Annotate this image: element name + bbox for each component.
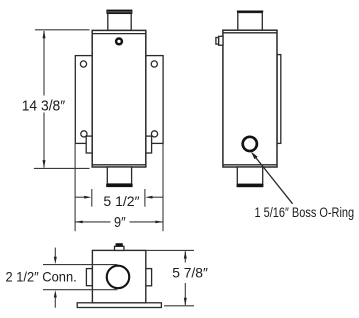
dim 5 7/8 vertical upper segment xyxy=(184,251,186,262)
side filler neck xyxy=(238,13,262,31)
dim 9 left extension line xyxy=(74,144,76,231)
dim 2 1/2 up arrow xyxy=(54,290,57,297)
bolt hole top-right xyxy=(151,61,157,67)
dim 5 7/8 vertical lower segment xyxy=(184,283,186,305)
side plug outer nut xyxy=(219,36,223,45)
dim 2 1/2 top extension line xyxy=(43,264,117,266)
bottom view right tab xyxy=(146,269,152,286)
front filler neck xyxy=(108,13,131,30)
dim 5 7/8 bottom extension line xyxy=(164,305,194,307)
front left bottom bracket tab xyxy=(86,136,92,153)
front right mounting flange xyxy=(146,56,163,144)
svg-text:5 7/8″: 5 7/8″ xyxy=(172,264,208,280)
dim 5 1/2 right extension line xyxy=(144,189,146,207)
dim 5 1/2 left-pointing arrow xyxy=(145,196,152,199)
side filler cap line xyxy=(237,11,263,13)
front vent hole xyxy=(116,39,122,45)
dim 5 1/2 right-pointing arrow xyxy=(84,196,91,199)
dim 14 3/8 up arrow xyxy=(43,30,46,38)
dim 5 1/2 left lead line xyxy=(75,196,87,198)
dim 5 1/2 left extension line xyxy=(91,189,93,207)
side body top inner seam line xyxy=(223,32,277,34)
front body top inner seam line xyxy=(92,33,146,35)
bottom view connection circle xyxy=(107,266,130,289)
bottom view left tab xyxy=(86,269,92,286)
dim 14 3/8 bottom extension line xyxy=(34,167,90,169)
side boss o-ring port circle xyxy=(243,137,257,151)
bolt hole bottom-left xyxy=(81,131,87,137)
svg-text:14 3/8″: 14 3/8″ xyxy=(22,98,66,115)
svg-text:9″: 9″ xyxy=(114,214,126,231)
dim 9 line left segment xyxy=(75,221,110,223)
dim 5 1/2 right lead line xyxy=(150,196,163,198)
svg-text:2 1/2″ Conn.: 2 1/2″ Conn. xyxy=(6,268,77,284)
side drain neck xyxy=(237,167,262,184)
svg-text:1 5/16″ Boss O-Ring: 1 5/16″ Boss O-Ring xyxy=(255,205,355,220)
front tank body xyxy=(92,30,146,167)
side tank body xyxy=(223,30,277,167)
dim 14 3/8 vertical line upper segment xyxy=(43,31,45,96)
front drain neck xyxy=(107,167,131,184)
dim 5 7/8 down arrow xyxy=(184,298,187,306)
dim 2 1/2 lower lead line xyxy=(54,294,56,307)
leader arrowhead xyxy=(251,152,258,160)
dim 2 1/2 down arrow xyxy=(54,257,57,264)
bottom view nub cap xyxy=(116,243,123,246)
dim 2 1/2 upper lead line xyxy=(54,248,56,260)
front right bottom bracket tab xyxy=(146,136,152,153)
bottom view body xyxy=(92,250,145,302)
bolt hole top-left xyxy=(80,61,86,67)
dim 9 line right segment xyxy=(130,221,163,223)
side flange edge tab xyxy=(277,55,281,144)
side drain cap (dark bar) xyxy=(237,184,264,187)
side body bottom inner seam line xyxy=(223,164,277,166)
dim 5 7/8 up arrow xyxy=(184,251,187,259)
bottom view nub base xyxy=(115,246,124,250)
dim 9 right extension line xyxy=(162,144,164,231)
bottom view base plate xyxy=(77,303,161,308)
leader line to boss o-ring xyxy=(255,157,292,204)
front left mounting flange xyxy=(75,56,92,144)
bolt hole bottom-right xyxy=(151,131,157,137)
dim 9 right arrow xyxy=(155,221,162,224)
front filler cap (dark bar) xyxy=(106,10,132,14)
dim 5 7/8 top extension line xyxy=(146,249,194,251)
dim 2 1/2 bottom extension line xyxy=(43,289,117,291)
dim 9 left arrow xyxy=(76,221,83,224)
front body bottom inner seam line xyxy=(92,164,146,166)
dim 14 3/8 down arrow xyxy=(43,160,46,168)
svg-text:5 1/2″: 5 1/2″ xyxy=(103,193,139,209)
dim 14 3/8 top extension line xyxy=(35,29,90,31)
dim 14 3/8 vertical line lower segment xyxy=(43,113,45,168)
front drain cap (dark bar) xyxy=(106,184,132,187)
side plug cap xyxy=(216,38,219,45)
